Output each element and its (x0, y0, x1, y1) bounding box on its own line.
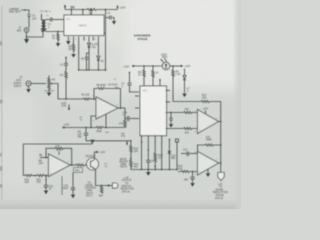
resistor R21 (99, 186, 104, 198)
capacitor C5 (81, 53, 90, 70)
power arrow small (121, 133, 128, 146)
label to level control (85, 181, 98, 197)
wire op-amp B minus input (39, 154, 49, 165)
wire J2 to T1 (27, 32, 44, 38)
connector output jack (218, 173, 224, 181)
op-amp IC4b (198, 152, 219, 176)
capacitor C17 (63, 173, 76, 195)
wire op-amp B plus input (23, 175, 25, 177)
power +12V mid terminal (124, 65, 163, 69)
wire Q1 emitter down (95, 169, 113, 187)
feedback resistor R8 (94, 83, 121, 108)
transformer T1 (40, 11, 51, 31)
ground below J4 (26, 86, 30, 93)
resistor R17 (201, 94, 210, 103)
wire left branch to resistor chain (86, 140, 132, 145)
pin numbers op-amp A (93, 96, 119, 123)
wire input loop from top (23, 141, 92, 176)
feedback resistor R12f (46, 146, 72, 165)
wire bottom rail (131, 169, 177, 171)
diode D3 (182, 69, 190, 98)
ground bottom rail (146, 170, 151, 176)
resistor R6 (69, 41, 76, 58)
scan noise overlay (0, 0, 1, 1)
ground below C17 (71, 195, 75, 199)
resistor R1 (52, 32, 59, 43)
jack J4 audio input (14, 76, 32, 88)
label R5 below op-amp A (80, 117, 84, 122)
label L+R output (121, 176, 134, 193)
LED LED1 (160, 53, 169, 69)
pin numbers op-amp C (195, 111, 218, 134)
diode D1 (88, 43, 98, 70)
resistor R11a (152, 66, 161, 87)
wire op-amp A power to rail (105, 114, 107, 128)
wire op-amp B bias down (61, 176, 63, 195)
wire IC2 bottom pins (141, 135, 162, 170)
wire IC2 to op-amp C input2 (166, 128, 184, 130)
wire R2 wiper to R4 (53, 84, 83, 100)
label expander stage (134, 33, 151, 41)
power arrow to op-amp A (61, 102, 71, 111)
label noise reduction (213, 183, 228, 200)
resistor R4 (82, 93, 97, 100)
pin numbers op-amp B (46, 153, 70, 182)
capacitor C16 (169, 113, 173, 128)
wire IC2 left stubs (135, 96, 139, 108)
label R7 1K near Q1 (105, 164, 109, 169)
border frame left (scan edge) (0, 41, 3, 188)
resistor R12 (76, 164, 90, 166)
label IC4 (206, 136, 212, 142)
capacitor C8 (78, 128, 89, 141)
op-amp IC4a (198, 108, 219, 134)
wire right column with X (168, 139, 171, 170)
capacitor C14 (146, 149, 154, 169)
wire output bus down (220, 122, 222, 164)
capacitor C13 (184, 172, 195, 183)
wire IC2 to op-amp C input1 (166, 91, 184, 114)
ground below R2 (47, 93, 51, 97)
resistor R18 (178, 165, 198, 173)
wire J4 to R2 (31, 83, 46, 85)
wire feedback to op-amp C output (210, 102, 221, 122)
power +12V right terminal (170, 65, 191, 68)
ground below IC1 pin (66, 41, 70, 45)
resistor R13 (184, 108, 198, 114)
ground below C13 (190, 183, 194, 187)
wire rail to IC1 top (71, 9, 92, 18)
capacitor C15 column (171, 139, 179, 170)
resistor R14 (184, 127, 198, 134)
wire rail to +12V terminal (97, 5, 126, 10)
wire op-amp C output node (219, 121, 222, 123)
resistor R15 (119, 119, 126, 128)
IC IC1 (64, 15, 104, 36)
wire op-amp A plus input bias (90, 116, 96, 128)
capacitor C7a vertical (122, 72, 140, 92)
ground below C11 (44, 191, 48, 195)
feedback resistor R16f (198, 144, 221, 152)
label: JUMPER SEE TEXT (9, 8, 21, 14)
wire IC1 pin stubs bottom (68, 37, 98, 71)
resistor R10 (25, 174, 38, 184)
resistor R5 (87, 8, 97, 15)
resistor R16 (130, 146, 139, 160)
wire IC1 right side (103, 9, 107, 70)
capacitor C11 (44, 176, 54, 191)
power +12V rail left (62, 124, 96, 129)
wire Q1 collector to +12V (95, 151, 106, 160)
resistor R20 (154, 153, 163, 170)
wire T1 to IC1 pin (46, 31, 64, 32)
resistor R11 (37, 174, 49, 184)
capacitor C10 (123, 108, 140, 121)
op-amp IC3a (96, 97, 118, 119)
capacitor C12 (181, 149, 198, 157)
wire jumper to C1 (21, 9, 29, 13)
capacitor C2 (46, 18, 64, 29)
ground below R1 (56, 43, 60, 47)
power +9V arrow (64, 5, 76, 10)
IC IC2 (140, 86, 167, 136)
resistor R10a (138, 66, 145, 87)
connector output level (113, 183, 118, 188)
label box 470 (74, 168, 83, 173)
capacitor C4 (106, 12, 117, 24)
capacitor C3 resistor R3 stack (60, 57, 68, 99)
wire op-amp A output (118, 107, 125, 109)
jack J2 mic input (17, 27, 29, 37)
wire 9V rail (65, 9, 87, 11)
wire op-amp B output (70, 164, 76, 166)
transistor Q1 (86, 155, 99, 170)
resistor R7 (96, 126, 125, 133)
power +12V op-amp B (56, 149, 62, 155)
pin numbers op-amp D (195, 152, 218, 176)
wire op-amp D output (219, 162, 222, 172)
op-amp IC3b (49, 154, 71, 177)
ground op-amp D (206, 169, 210, 177)
background page (0, 0, 241, 209)
resistor R9 (172, 66, 181, 102)
potentiometer R2 (45, 76, 56, 93)
capacitor C1 (28, 15, 37, 28)
label select text (120, 158, 129, 169)
wire rail y70 (78, 69, 107, 71)
ground below C8 (90, 140, 94, 144)
diode D2 (97, 56, 105, 70)
ground below J2 (24, 36, 29, 43)
wire R9 to R17 (173, 101, 201, 103)
resistor R19 (130, 159, 139, 170)
